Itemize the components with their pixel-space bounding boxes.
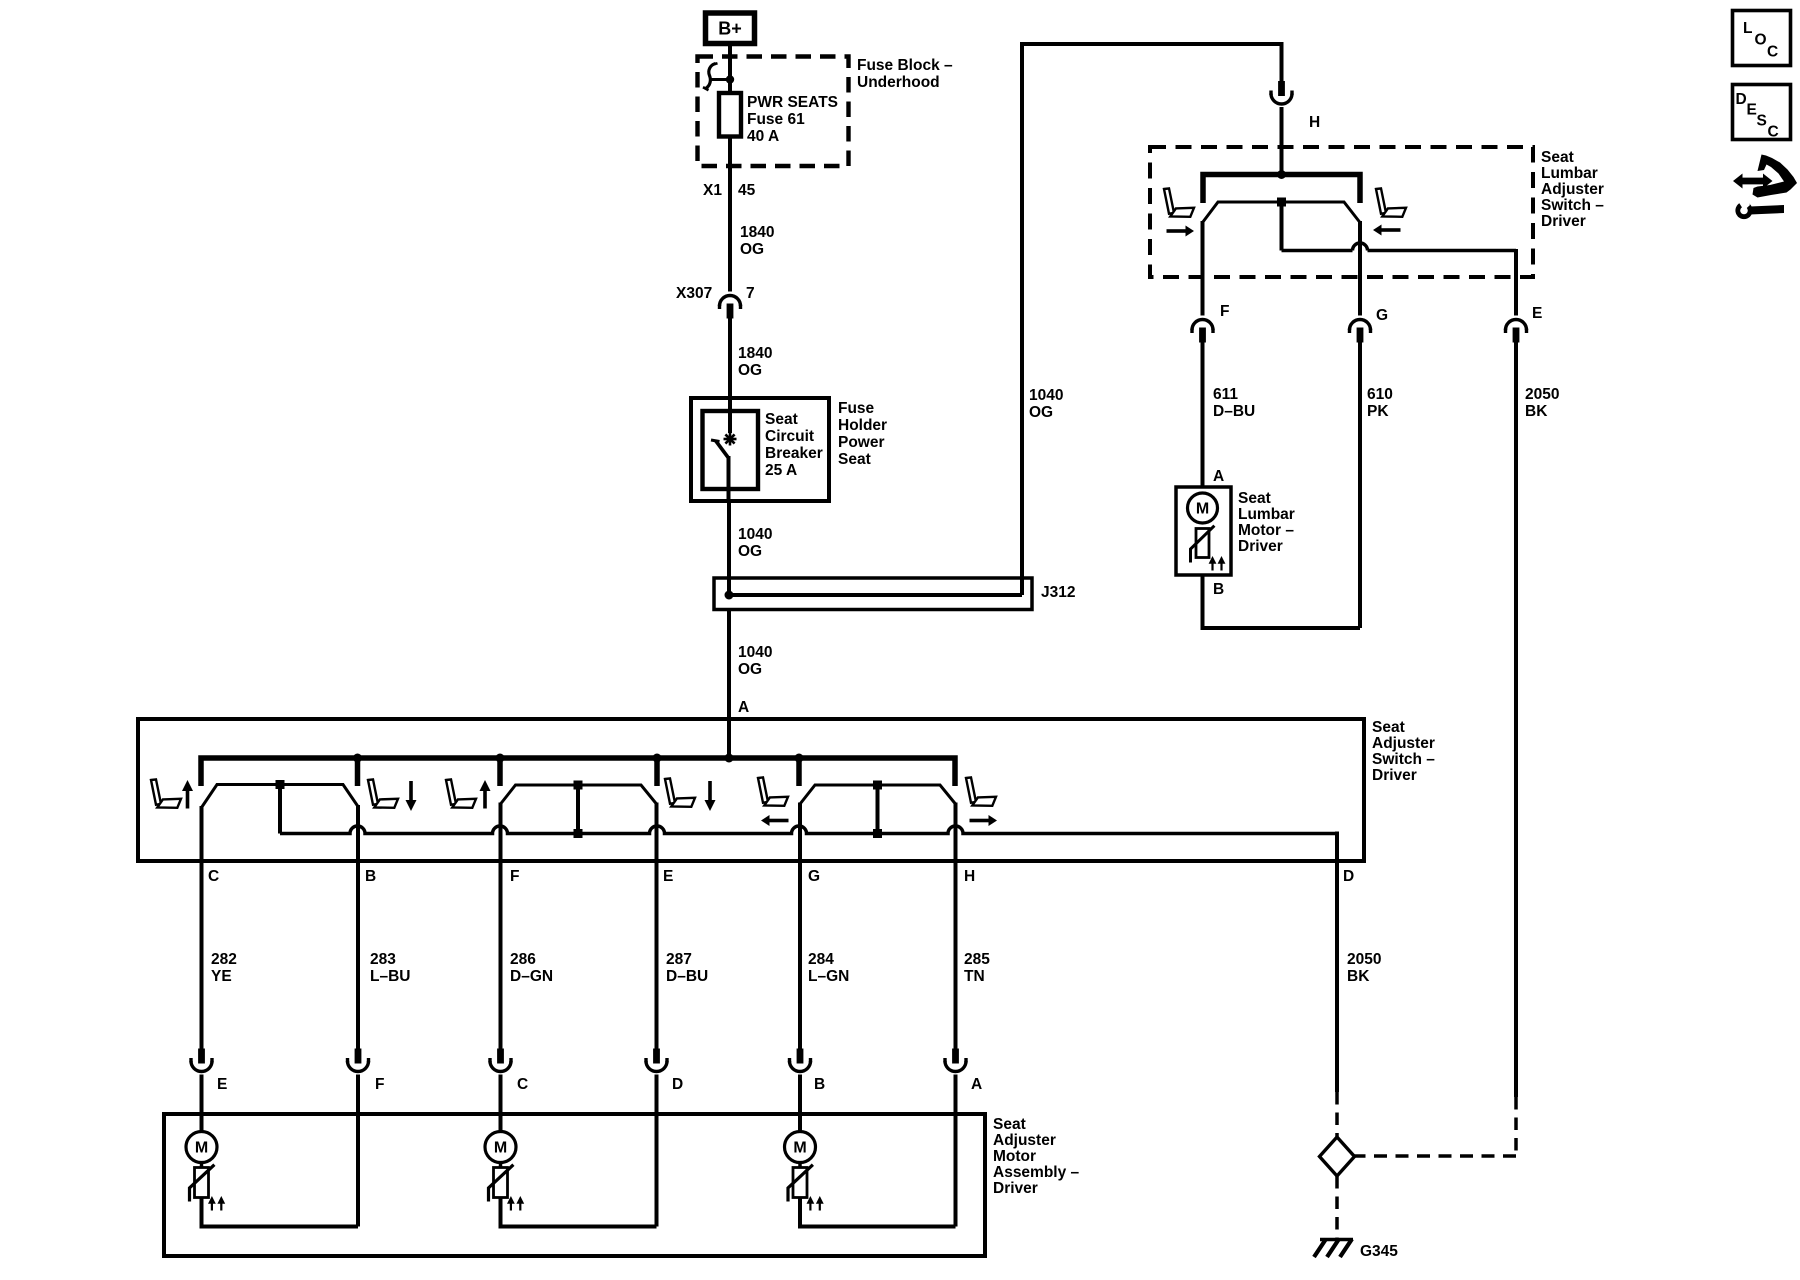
seat icon 5: [758, 777, 788, 805]
svg-text:E: E: [1532, 305, 1542, 322]
svg-text:40 A: 40 A: [747, 128, 779, 145]
svg-text:O: O: [1755, 32, 1767, 49]
svg-text:L–GN: L–GN: [808, 968, 849, 985]
motor 1 return wire: [202, 1198, 359, 1227]
fuse block label: [857, 57, 953, 91]
svg-text:F: F: [510, 868, 519, 885]
adjuster switch label: [1372, 719, 1435, 784]
svg-text:Adjuster: Adjuster: [1372, 735, 1435, 752]
svg-text:285: 285: [964, 951, 990, 968]
arrow down 2: [406, 800, 417, 811]
svg-text:Driver: Driver: [1372, 767, 1417, 784]
svg-text:Seat: Seat: [1372, 719, 1405, 736]
ground G345: [1314, 1239, 1353, 1257]
svg-text:Motor: Motor: [993, 1148, 1036, 1165]
wire C: [200, 806, 204, 1050]
svg-text:283: 283: [370, 951, 396, 968]
seat lumbar motor driver box: [1176, 487, 1231, 575]
svg-text:Fuse Block –: Fuse Block –: [857, 57, 953, 74]
wire into motor box D: [655, 1075, 659, 1227]
svg-text:G: G: [1376, 307, 1388, 324]
battery feed B+ terminal: [706, 13, 755, 44]
svg-text:284: 284: [808, 951, 834, 968]
connector C (motor assembly): [488, 1049, 512, 1072]
svg-text:G: G: [808, 868, 820, 885]
connector labels X307 / 7: [676, 285, 755, 302]
wire E: [655, 803, 659, 1050]
wire lumbar motor B to G: [1203, 575, 1361, 628]
svg-text:YE: YE: [211, 968, 232, 985]
seat adjuster motor assembly box: [164, 1114, 985, 1256]
wire 1040 OG branch to lumbar switch: [1020, 42, 1282, 595]
seat adjuster switch driver box: [138, 719, 1364, 861]
wire lumbar F: [1201, 221, 1205, 316]
svg-text:Fuse 61: Fuse 61: [747, 111, 805, 128]
connector F lumbar: [1190, 320, 1214, 343]
svg-text:D: D: [1736, 91, 1747, 108]
connector X307 pin 7: [718, 296, 742, 319]
svg-text:Driver: Driver: [1541, 213, 1586, 230]
svg-text:B: B: [365, 868, 376, 885]
svg-text:Underhood: Underhood: [857, 74, 940, 91]
connector E lumbar: [1504, 320, 1528, 343]
svg-text:1040: 1040: [738, 526, 772, 543]
svg-text:M: M: [1196, 501, 1209, 518]
arrow down 4: [705, 800, 716, 811]
bus tap hook: [703, 63, 730, 90]
svg-text:286: 286: [510, 951, 536, 968]
svg-text:Driver: Driver: [993, 1180, 1038, 1197]
svg-text:Switch –: Switch –: [1541, 197, 1604, 214]
svg-text:Seat: Seat: [838, 451, 871, 468]
wire fuse to X307: [728, 137, 732, 292]
switch 1 blade (C-B): [202, 785, 359, 808]
fuse block underhood box (dashed): [698, 57, 849, 167]
svg-text:Breaker: Breaker: [765, 445, 823, 462]
svg-text:Seat: Seat: [1541, 149, 1574, 166]
adjust icon (arrows + wrench): [1733, 155, 1797, 220]
connector G lumbar: [1348, 320, 1372, 343]
fuse holder power seat box: [691, 398, 829, 501]
motor 2 return wire: [501, 1198, 657, 1227]
arrow up 3: [480, 780, 491, 791]
wire into motor box F: [356, 1075, 360, 1227]
lumbar switch blade: [1203, 202, 1361, 223]
lumbar seat icon left: [1164, 188, 1194, 216]
svg-text:D: D: [672, 1076, 683, 1093]
svg-text:C: C: [1768, 124, 1779, 141]
svg-text:1040: 1040: [738, 644, 772, 661]
switch 3 blade (G-H): [800, 785, 956, 804]
svg-text:L: L: [1743, 20, 1752, 37]
svg-text:E: E: [217, 1076, 227, 1093]
svg-text:2050: 2050: [1525, 386, 1559, 403]
svg-text:B: B: [1213, 581, 1224, 598]
seat icon 4: [665, 778, 695, 806]
wire label 1040 OG: [1029, 387, 1063, 421]
wire X307 to circuit breaker: [728, 318, 732, 398]
svg-text:H: H: [1309, 114, 1320, 131]
wire F: [499, 803, 503, 1050]
dashed wire D to splice: [1335, 1092, 1339, 1137]
junction dot (fuse block tap): [726, 75, 734, 83]
svg-text:Lumbar: Lumbar: [1541, 165, 1598, 182]
svg-text:OG: OG: [740, 241, 764, 258]
lumbar switch label: [1541, 149, 1604, 230]
svg-text:Adjuster: Adjuster: [993, 1132, 1056, 1149]
pin labels C B F E G H D: [208, 868, 1354, 885]
lumbar switch center leg: [1277, 198, 1286, 251]
wire into motor box E: [200, 1075, 204, 1131]
seat icon 1: [151, 779, 181, 807]
arrow left 5: [761, 815, 770, 826]
wire 610 PK: [1358, 342, 1362, 628]
svg-text:Lumbar: Lumbar: [1238, 506, 1295, 523]
seat lumbar adjuster switch box (dashed): [1150, 147, 1533, 277]
connector B (motor assembly): [788, 1049, 812, 1072]
fuse value label: [747, 94, 838, 145]
lumbar arrow right: [1186, 226, 1195, 237]
wire G: [798, 803, 802, 1050]
seat circuit breaker 25A: [703, 400, 759, 501]
lumbar common wire to E: [1282, 243, 1517, 315]
dashed wire E branch to splice: [1355, 1097, 1517, 1156]
switch 1 center leg: [276, 780, 285, 834]
svg-text:X1: X1: [703, 182, 722, 199]
junction dot J312: [725, 591, 734, 600]
svg-text:G345: G345: [1360, 1243, 1398, 1260]
seat icon 6: [966, 777, 996, 805]
lumbar motor M: [1188, 493, 1218, 523]
switch 3 center leg: [873, 781, 882, 839]
svg-text:1040: 1040: [1029, 387, 1063, 404]
svg-text:Power: Power: [838, 434, 885, 451]
svg-text:A: A: [738, 699, 749, 716]
svg-text:TN: TN: [964, 968, 985, 985]
svg-text:B: B: [814, 1076, 825, 1093]
switch 2 blade (F-E): [501, 785, 657, 804]
pin labels X1 / 45: [703, 182, 756, 199]
svg-text:Circuit: Circuit: [765, 428, 814, 445]
svg-text:Motor –: Motor –: [1238, 522, 1294, 539]
svg-text:D–GN: D–GN: [510, 968, 553, 985]
motor 2: [485, 1132, 516, 1163]
wire labels 282 YE etc: [211, 951, 1381, 985]
svg-text:610: 610: [1367, 386, 1393, 403]
svg-text:Seat: Seat: [993, 1116, 1026, 1133]
motor 3: [785, 1132, 816, 1163]
fuse holder label: [838, 400, 887, 468]
svg-text:OG: OG: [738, 543, 762, 560]
svg-text:287: 287: [666, 951, 692, 968]
svg-text:M: M: [793, 1140, 806, 1157]
svg-text:F: F: [375, 1076, 384, 1093]
svg-text:Assembly –: Assembly –: [993, 1164, 1080, 1181]
wire into motor box A: [954, 1075, 958, 1227]
LOC button: [1733, 11, 1791, 66]
svg-text:OG: OG: [738, 661, 762, 678]
splice J312 box: [714, 578, 1032, 610]
svg-text:C: C: [1767, 44, 1778, 61]
svg-text:D–BU: D–BU: [1213, 403, 1255, 420]
svg-text:B+: B+: [718, 19, 742, 39]
svg-text:E: E: [663, 868, 673, 885]
connector A (motor assembly): [943, 1049, 967, 1072]
wire H into lumbar switch: [1280, 107, 1284, 175]
dashed wire splice to ground: [1335, 1176, 1339, 1238]
switch 2 center leg: [574, 781, 583, 839]
wire 2050 BK right: [1514, 342, 1518, 1097]
svg-text:M: M: [494, 1140, 507, 1157]
svg-text:J312: J312: [1041, 584, 1075, 601]
svg-text:OG: OG: [738, 362, 762, 379]
seat icon 2: [368, 779, 398, 807]
adjuster bus bar: [201, 754, 955, 787]
svg-text:25 A: 25 A: [765, 462, 797, 479]
wire label 1840 OG: [740, 224, 774, 258]
svg-text:Adjuster: Adjuster: [1541, 181, 1604, 198]
lumbar switch feed line: [1203, 170, 1360, 203]
wire J312 to seat adjuster switch: [727, 610, 731, 759]
wire into motor box C: [499, 1075, 503, 1131]
svg-text:X307: X307: [676, 285, 712, 302]
svg-text:45: 45: [738, 182, 756, 199]
lumbar arrow left: [1373, 225, 1382, 236]
wire breaker to J312: [727, 501, 731, 595]
svg-text:Switch –: Switch –: [1372, 751, 1435, 768]
svg-text:BK: BK: [1347, 968, 1370, 985]
svg-text:OG: OG: [1029, 404, 1053, 421]
lumbar seat icon right: [1376, 188, 1406, 216]
wire inside J312: [729, 593, 1022, 597]
svg-text:L–BU: L–BU: [370, 968, 410, 985]
wire 611 D-BU: [1201, 342, 1205, 487]
connector D (motor assembly): [644, 1049, 668, 1072]
svg-text:1840: 1840: [738, 345, 772, 362]
svg-text:Holder: Holder: [838, 417, 887, 434]
svg-text:A: A: [971, 1076, 982, 1093]
svg-text:1840: 1840: [740, 224, 774, 241]
fuse PWR SEATS 61: [719, 93, 741, 137]
svg-text:M: M: [195, 1140, 208, 1157]
arrow up 1: [182, 780, 193, 791]
svg-text:H: H: [964, 868, 975, 885]
svg-text:PK: PK: [1367, 403, 1389, 420]
svg-text:Seat: Seat: [765, 411, 798, 428]
svg-text:Driver: Driver: [1238, 538, 1283, 555]
connector F (motor assembly): [346, 1049, 370, 1072]
connector E (motor assembly): [189, 1049, 213, 1072]
breaker label: [765, 411, 823, 479]
wire into motor box B: [798, 1075, 802, 1131]
wire label 1840 OG: [738, 345, 772, 379]
connector H (lumbar switch): [1269, 81, 1293, 104]
svg-text:C: C: [517, 1076, 528, 1093]
svg-text:BK: BK: [1525, 403, 1548, 420]
svg-text:PWR SEATS: PWR SEATS: [747, 94, 838, 111]
svg-text:611: 611: [1213, 386, 1238, 403]
svg-text:2050: 2050: [1347, 951, 1381, 968]
wire H: [954, 803, 958, 1050]
arrow right 6: [989, 815, 998, 826]
svg-text:A: A: [1213, 468, 1224, 485]
adjuster common line to D: [280, 826, 1337, 833]
svg-text:F: F: [1220, 303, 1229, 320]
svg-text:Fuse: Fuse: [838, 400, 875, 417]
wire label 1040 OG: [738, 526, 772, 560]
wire 2050 BK from D: [1335, 861, 1339, 1092]
motor 1: [186, 1132, 217, 1163]
svg-text:S: S: [1757, 113, 1767, 130]
wire B+ to fuse: [728, 46, 732, 93]
wire B: [356, 805, 360, 1050]
svg-text:282: 282: [211, 951, 237, 968]
svg-text:Seat: Seat: [1238, 490, 1271, 507]
svg-text:E: E: [1747, 102, 1757, 119]
svg-text:D–BU: D–BU: [666, 968, 708, 985]
wire lumbar G: [1358, 221, 1362, 316]
splice diamond: [1320, 1137, 1355, 1176]
lumbar motor label: [1238, 490, 1295, 555]
DESC button: [1733, 85, 1791, 141]
svg-text:D: D: [1343, 868, 1354, 885]
lumbar motor PTC: [1191, 526, 1226, 571]
wire label 1040 OG: [738, 644, 772, 678]
seat icon 3: [446, 779, 476, 807]
svg-text:7: 7: [746, 285, 755, 302]
motor 3 return wire: [800, 1198, 956, 1227]
svg-text:C: C: [208, 868, 219, 885]
motor assembly label: [993, 1116, 1080, 1197]
